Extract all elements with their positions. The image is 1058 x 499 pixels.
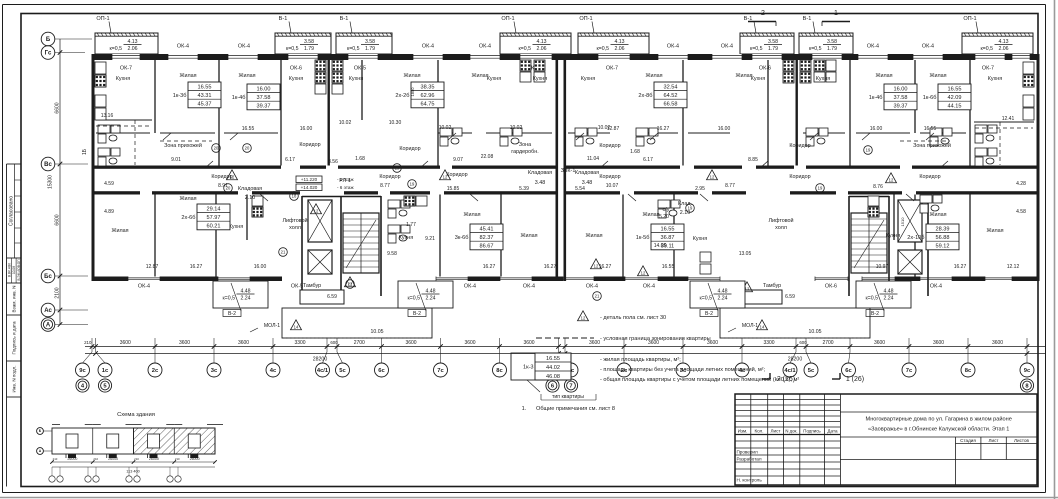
svg-text:5.20: 5.20	[659, 214, 669, 220]
svg-text:к=0,5: к=0,5	[286, 46, 299, 52]
svg-text:44.15: 44.15	[948, 104, 962, 110]
svg-text:12: 12	[641, 271, 646, 276]
svg-text:20: 20	[245, 146, 250, 151]
svg-text:к=0,5: к=0,5	[518, 46, 531, 52]
svg-text:19: 19	[688, 206, 693, 211]
apartment area table 1к-6б	[923, 84, 971, 110]
svg-text:16.00: 16.00	[300, 126, 313, 132]
svg-text:12: 12	[443, 175, 448, 180]
svg-text:12: 12	[745, 287, 750, 292]
level marks	[296, 176, 354, 191]
svg-text:Б: Б	[46, 37, 51, 43]
svg-text:12: 12	[230, 175, 235, 180]
svg-text:37.58: 37.58	[257, 95, 271, 101]
axis circle 5с	[804, 363, 818, 377]
svg-text:Зона прихожей: Зона прихожей	[913, 142, 951, 149]
svg-text:14.65: 14.65	[654, 243, 667, 249]
svg-text:- 5 этаж: - 5 этаж	[337, 177, 354, 182]
axis circle 6	[546, 379, 559, 392]
svg-text:ЗЛК-1: ЗЛК-1	[561, 168, 576, 174]
svg-text:6.59: 6.59	[785, 294, 795, 300]
svg-text:3300: 3300	[294, 340, 305, 346]
svg-text:4.59: 4.59	[104, 181, 114, 187]
svg-text:ОК-4: ОК-4	[138, 284, 150, 290]
svg-text:46.08: 46.08	[546, 374, 560, 380]
svg-text:4.13: 4.13	[614, 39, 624, 45]
svg-text:16.55: 16.55	[242, 126, 255, 132]
svg-text:ОК-4: ОК-4	[523, 284, 535, 290]
svg-text:к=0,5: к=0,5	[347, 46, 360, 52]
svg-text:Тамбур: Тамбур	[763, 283, 781, 289]
svg-text:32.54: 32.54	[664, 84, 678, 90]
svg-text:16.27: 16.27	[483, 264, 496, 270]
svg-text:15.85: 15.85	[447, 186, 460, 192]
svg-text:Кладовая: Кладовая	[575, 170, 599, 176]
svg-text:Кухня: Кухня	[349, 76, 364, 82]
svg-text:4.48: 4.48	[883, 289, 893, 295]
svg-text:2х-6б: 2х-6б	[181, 215, 195, 221]
svg-text:Кухня: Кухня	[751, 76, 766, 82]
interior walls top apartments	[154, 60, 156, 133]
axis circle 4с/1	[783, 363, 797, 377]
svg-text:- жилая площадь квартиры, м²;: - жилая площадь квартиры, м²;	[600, 357, 681, 363]
svg-text:210: 210	[93, 457, 98, 461]
svg-text:1к-4б: 1к-4б	[869, 95, 883, 101]
balcony ОП-1	[578, 16, 649, 54]
svg-text:Н. контроль: Н. контроль	[737, 478, 763, 483]
svg-text:- условная граница зонировани: - условная граница зонирования квартиры	[600, 336, 711, 342]
corridor lower wall	[92, 191, 141, 194]
svg-text:5.39: 5.39	[519, 186, 529, 192]
svg-text:ОК-4: ОК-4	[667, 44, 679, 50]
svg-text:2: 2	[761, 10, 765, 17]
svg-text:64.75: 64.75	[421, 102, 435, 108]
svg-text:5с: 5с	[808, 368, 815, 374]
svg-text:16.27: 16.27	[954, 264, 967, 270]
svg-text:9.01: 9.01	[171, 157, 181, 163]
svg-text:4.13: 4.13	[127, 39, 137, 45]
svg-text:21: 21	[595, 294, 600, 299]
svg-text:А: А	[46, 323, 51, 329]
svg-text:ОК-7: ОК-7	[606, 66, 618, 72]
svg-text:1.68: 1.68	[355, 156, 365, 162]
wall mark 21	[279, 248, 288, 257]
svg-text:В-1: В-1	[803, 16, 812, 22]
kitchen fixtures right exterior	[1023, 62, 1034, 74]
core walls	[888, 196, 890, 290]
svg-text:28200: 28200	[788, 357, 803, 363]
svg-text:4.48: 4.48	[425, 289, 435, 295]
svg-text:Кухня: Кухня	[289, 76, 304, 82]
svg-text:1.79: 1.79	[365, 46, 375, 52]
svg-text:16.00: 16.00	[718, 126, 731, 132]
svg-text:5.54: 5.54	[575, 186, 585, 192]
svg-text:- деталь пола см. лист 30: - деталь пола см. лист 30	[600, 315, 666, 321]
entrance porch MOL-1	[282, 308, 432, 338]
floor detail marker 12	[440, 170, 451, 180]
axis circle 3с	[676, 363, 690, 377]
svg-text:16.55: 16.55	[948, 86, 962, 92]
svg-text:16.55: 16.55	[661, 226, 675, 232]
svg-text:1к-3б: 1к-3б	[173, 93, 187, 99]
svg-text:1к-4б: 1к-4б	[232, 95, 246, 101]
floor detail marker 12	[345, 277, 356, 287]
apartment area table 1к-3б	[173, 82, 221, 108]
svg-text:2.95: 2.95	[695, 186, 705, 192]
floor detail marker 12	[591, 259, 602, 269]
svg-text:3600: 3600	[405, 340, 416, 346]
svg-text:66.58: 66.58	[664, 102, 678, 108]
svg-text:Жилая: Жилая	[986, 228, 1003, 234]
svg-text:1510: 1510	[900, 217, 905, 227]
svg-text:12: 12	[710, 175, 715, 180]
apartment area table 2х-2б	[395, 82, 444, 108]
svg-text:44.02: 44.02	[546, 365, 560, 371]
svg-text:Жилая: Жилая	[929, 212, 946, 218]
bottom exterior wall	[92, 277, 1040, 282]
wall mark 19	[735, 284, 744, 293]
svg-text:ОК-6: ОК-6	[759, 66, 771, 72]
svg-text:ОП-1: ОП-1	[501, 16, 514, 22]
svg-text:1.68: 1.68	[630, 149, 640, 155]
svg-text:Жилая: Жилая	[403, 73, 420, 79]
svg-text:Зона прихожей: Зона прихожей	[164, 142, 202, 149]
axis circle 2с	[617, 363, 631, 377]
bottom axis circles	[83, 352, 93, 363]
svg-text:6600: 6600	[55, 214, 61, 225]
svg-text:64.52: 64.52	[664, 93, 678, 99]
svg-text:8.76: 8.76	[873, 184, 883, 190]
svg-text:Жилая: Жилая	[585, 233, 602, 239]
wall mark 18	[290, 192, 299, 201]
svg-text:7с: 7с	[906, 368, 913, 374]
svg-text:к=0,5: к=0,5	[980, 46, 993, 52]
svg-text:8с: 8с	[496, 368, 503, 374]
exterior right wall	[1037, 54, 1040, 281]
svg-text:Коридор: Коридор	[299, 142, 320, 148]
svg-text:3.48: 3.48	[535, 180, 546, 186]
svg-text:Бс: Бс	[44, 274, 52, 280]
svg-text:ОП-1: ОП-1	[96, 16, 109, 22]
svg-text:Кухня: Кухня	[229, 224, 244, 230]
bathroom fixture clusters	[98, 125, 120, 143]
wall mark 20	[212, 144, 221, 153]
svg-text:Многоквартирные дома по ул. Га: Многоквартирные дома по ул. Гагарина в ж…	[866, 416, 1012, 423]
svg-text:16.27: 16.27	[657, 126, 670, 132]
svg-text:3к-6б: 3к-6б	[455, 235, 469, 241]
dashed zone boundaries	[160, 140, 212, 142]
entrance labels	[762, 373, 864, 383]
svg-text:56.88: 56.88	[936, 235, 950, 241]
svg-text:2х-2б: 2х-2б	[395, 93, 409, 99]
axis circle 6с	[375, 363, 389, 377]
floor detail marker 12	[227, 170, 238, 180]
svg-text:1.: 1.	[522, 406, 527, 412]
svg-text:4.58: 4.58	[1016, 209, 1026, 215]
svg-text:9с: 9с	[79, 368, 86, 374]
svg-text:3600: 3600	[120, 340, 131, 346]
svg-text:МОЛ-1: МОЛ-1	[264, 323, 280, 329]
bottom dimension line	[85, 338, 1045, 352]
svg-text:3.58: 3.58	[304, 39, 314, 45]
svg-text:4.13: 4.13	[536, 39, 546, 45]
axis circle 5	[98, 379, 111, 392]
svg-text:ОК-4: ОК-4	[643, 284, 655, 290]
section entry marks 2 and 1	[748, 10, 850, 26]
svg-text:8.77: 8.77	[725, 183, 735, 189]
floor detail marker 12	[707, 170, 718, 180]
axis circle 4с	[266, 363, 280, 377]
axis circle 8с	[961, 363, 975, 377]
axis circle 9с	[76, 363, 90, 377]
wall mark 19	[686, 204, 695, 213]
svg-text:8.85: 8.85	[748, 157, 758, 163]
svg-text:2.06: 2.06	[127, 46, 137, 52]
svg-text:Гс: Гс	[45, 51, 52, 57]
svg-text:1.79: 1.79	[304, 46, 314, 52]
svg-text:2х-10б: 2х-10б	[907, 235, 924, 241]
legend notes	[511, 311, 799, 412]
svg-text:18: 18	[292, 194, 297, 199]
svg-text:Жилая: Жилая	[179, 196, 196, 202]
svg-text:600: 600	[330, 340, 338, 345]
section joint double wall	[556, 54, 559, 281]
axis circle 7	[564, 379, 577, 392]
svg-text:12.41: 12.41	[1002, 116, 1015, 122]
svg-text:4.89: 4.89	[104, 209, 114, 215]
loggia В-2	[856, 281, 911, 317]
svg-text:Коридор: Коридор	[919, 174, 940, 180]
svg-text:ОП-1: ОП-1	[579, 16, 592, 22]
svg-text:7: 7	[569, 384, 572, 390]
svg-text:5с: 5с	[339, 368, 346, 374]
elevator shaft upper	[898, 200, 922, 242]
svg-text:4с: 4с	[270, 368, 277, 374]
svg-text:13.16: 13.16	[101, 113, 114, 119]
svg-text:3с: 3с	[211, 368, 218, 374]
svg-text:62.96: 62.96	[421, 93, 435, 99]
axis circle 3с	[207, 363, 221, 377]
svg-text:ОК-4: ОК-4	[479, 44, 491, 50]
svg-text:4.13: 4.13	[998, 39, 1008, 45]
entrance porch MOL-1	[720, 308, 870, 338]
svg-text:10.97: 10.97	[876, 264, 889, 270]
floor detail marker 12	[311, 204, 322, 214]
svg-text:2.06: 2.06	[536, 46, 546, 52]
svg-text:16.55: 16.55	[198, 84, 212, 90]
svg-text:86.67: 86.67	[480, 244, 494, 250]
svg-text:2.10: 2.10	[245, 195, 256, 201]
apartment area table 2х-6б	[181, 204, 230, 230]
svg-text:2100: 2100	[55, 287, 61, 298]
svg-text:16.00: 16.00	[894, 86, 908, 92]
svg-text:Кухня: Кухня	[581, 76, 596, 82]
svg-text:В.ЭМ.АОВ.ОП: В.ЭМ.АОВ.ОП	[17, 259, 21, 281]
svg-text:15300: 15300	[48, 175, 54, 189]
svg-text:Зона: Зона	[519, 142, 531, 148]
svg-text:В-2: В-2	[228, 311, 236, 317]
svg-text:2.24: 2.24	[240, 296, 250, 302]
svg-text:холл: холл	[775, 225, 787, 231]
axis circle 4с	[735, 363, 749, 377]
svg-text:10.02: 10.02	[510, 125, 523, 131]
balcony В-1	[740, 16, 794, 54]
axis circle 7с	[434, 363, 448, 377]
svg-text:Взам. инв. N: Взам. инв. N	[12, 286, 17, 313]
svg-text:9с: 9с	[1024, 368, 1031, 374]
svg-text:Жилая: Жилая	[463, 212, 480, 218]
axis circle А	[41, 318, 55, 332]
svg-text:холл: холл	[289, 225, 301, 231]
svg-text:19: 19	[395, 166, 400, 171]
wall mark 20	[243, 144, 252, 153]
stove cluster section joint	[520, 60, 531, 71]
svg-text:Жилая: Жилая	[929, 73, 946, 79]
svg-text:Кухня: Кухня	[816, 76, 831, 82]
svg-text:59.12: 59.12	[936, 244, 950, 250]
axis circle Ас	[41, 303, 55, 317]
svg-text:Коридор: Коридор	[599, 143, 620, 149]
svg-text:36.87: 36.87	[661, 235, 675, 241]
svg-text:ОК-6: ОК-6	[290, 66, 302, 72]
svg-text:к=0,5: к=0,5	[222, 296, 235, 302]
stair flight	[343, 213, 379, 273]
svg-text:Кол.: Кол.	[754, 429, 763, 434]
svg-text:39.37: 39.37	[257, 104, 271, 110]
svg-text:26000: 26000	[190, 457, 200, 461]
svg-text:Лист: Лист	[771, 429, 782, 434]
svg-text:Разработал: Разработал	[737, 457, 762, 462]
svg-text:10.08: 10.08	[12, 266, 16, 274]
svg-text:Кухня: Кухня	[116, 76, 131, 82]
axis circle 7с	[902, 363, 916, 377]
axis circle 1с	[564, 363, 578, 377]
svg-text:тип квартиры: тип квартиры	[552, 394, 584, 400]
apartment area table 2х-8б	[638, 82, 687, 108]
svg-text:ОК-4: ОК-4	[422, 44, 434, 50]
svg-text:2.06: 2.06	[998, 46, 1008, 52]
balcony В-1	[336, 16, 392, 54]
wall mark 19	[408, 180, 417, 189]
svg-text:14: 14	[760, 325, 765, 330]
svg-text:8.77: 8.77	[380, 183, 390, 189]
svg-text:43.31: 43.31	[198, 93, 212, 99]
kitchen fixtures left exterior	[95, 62, 106, 74]
wall mark 20	[224, 184, 233, 193]
floor detail marker 12	[886, 173, 897, 183]
svg-text:210: 210	[175, 457, 180, 461]
svg-text:2х-8б: 2х-8б	[638, 93, 652, 99]
svg-text:Кухня: Кухня	[533, 76, 548, 82]
svg-text:4с/1: 4с/1	[784, 368, 796, 374]
bottom zone fixtures near cores	[388, 200, 410, 218]
svg-text:к=0,5: к=0,5	[809, 46, 822, 52]
svg-text:Коридор: Коридор	[399, 146, 420, 152]
building schema	[37, 412, 223, 482]
svg-text:N док.: N док.	[785, 429, 797, 434]
svg-text:к=0,5: к=0,5	[407, 296, 420, 302]
interior walls bottom apartments	[154, 195, 156, 277]
svg-text:1Б: 1Б	[82, 148, 88, 155]
svg-text:ОК-4: ОК-4	[867, 44, 879, 50]
svg-text:В.ВК.НВК: В.ВК.НВК	[7, 263, 11, 277]
svg-text:Лист: Лист	[989, 438, 1000, 443]
axis circle 1с	[98, 363, 112, 377]
svg-text:Коридор: Коридор	[379, 174, 400, 180]
svg-text:В-1: В-1	[279, 16, 288, 22]
axis circle 8с	[493, 363, 507, 377]
svg-text:- общая площадь квартиры с уч: - общая площадь квартиры с учетом площад…	[600, 376, 799, 383]
apartment area table 1к-4б	[869, 84, 917, 110]
svg-text:Жилая: Жилая	[179, 73, 196, 79]
elevator shaft lower	[308, 250, 332, 274]
svg-text:ОК-4: ОК-4	[238, 44, 250, 50]
svg-text:Кухня: Кухня	[399, 235, 414, 241]
svg-text:Коридор: Коридор	[446, 172, 467, 178]
svg-text:10.07: 10.07	[606, 183, 619, 189]
svg-text:Лифтовой: Лифтовой	[768, 217, 793, 224]
axis circle 9с	[1020, 363, 1034, 377]
svg-text:19: 19	[866, 148, 871, 153]
svg-text:2.24: 2.24	[717, 296, 727, 302]
door leaves	[163, 133, 171, 140]
svg-text:ОК-4: ОК-4	[177, 44, 189, 50]
svg-text:ОК-4: ОК-4	[930, 284, 942, 290]
svg-text:3600: 3600	[874, 340, 885, 346]
svg-text:Лифтовой: Лифтовой	[282, 217, 307, 224]
svg-text:Изм.: Изм.	[738, 429, 748, 434]
svg-text:ОК-4: ОК-4	[922, 44, 934, 50]
svg-text:2.24: 2.24	[883, 296, 893, 302]
svg-text:600: 600	[799, 340, 807, 345]
svg-text:21: 21	[281, 250, 286, 255]
left stamp column	[7, 164, 22, 487]
stair flight	[851, 213, 887, 273]
svg-text:Кухня: Кухня	[693, 236, 708, 242]
svg-text:3600: 3600	[992, 340, 1003, 346]
corridor upper wall	[92, 166, 282, 169]
svg-text:Жилая: Жилая	[520, 233, 537, 239]
svg-text:28200: 28200	[313, 357, 328, 363]
scan edge shadow	[1054, 0, 1056, 499]
svg-text:Кладовая: Кладовая	[528, 170, 552, 176]
svg-text:29.14: 29.14	[207, 206, 221, 212]
svg-text:4с/1: 4с/1	[317, 368, 329, 374]
svg-text:4.48: 4.48	[717, 289, 727, 295]
svg-text:2.24: 2.24	[425, 296, 435, 302]
apartment area table 1к-5б	[636, 224, 684, 250]
svg-text:1.79: 1.79	[768, 46, 778, 52]
svg-text:10.05: 10.05	[371, 329, 384, 335]
elevator shaft upper	[308, 200, 332, 242]
svg-text:Схема здания: Схема здания	[117, 412, 155, 418]
core walls	[301, 196, 303, 290]
loggia В-2	[690, 281, 745, 317]
axis circle 5с	[336, 363, 350, 377]
svg-text:3.56: 3.56	[328, 159, 338, 165]
svg-text:9.58: 9.58	[387, 251, 397, 257]
svg-text:к=0,5: к=0,5	[109, 46, 122, 52]
svg-text:12: 12	[581, 316, 586, 321]
svg-text:2.06: 2.06	[614, 46, 624, 52]
svg-text:4.48: 4.48	[240, 289, 250, 295]
svg-text:45.41: 45.41	[480, 226, 494, 232]
svg-text:20: 20	[214, 146, 219, 151]
axis circle 9с	[544, 363, 558, 377]
svg-text:1 (26): 1 (26)	[846, 376, 864, 383]
wall mark 21	[346, 280, 355, 289]
svg-text:Дата: Дата	[827, 429, 838, 434]
